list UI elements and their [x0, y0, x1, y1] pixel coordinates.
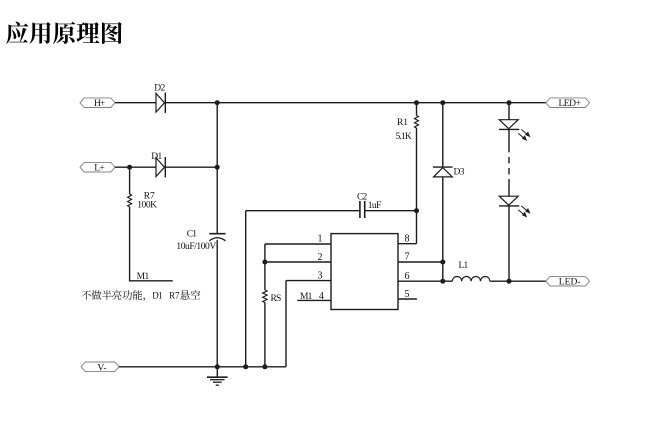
svg-text:10uF/100V: 10uF/100V [176, 242, 216, 252]
svg-text:R7: R7 [169, 291, 180, 301]
wire LED1 to dash [508, 129, 510, 146]
wire LED string top [508, 103, 510, 120]
wire D3 top [442, 103, 444, 167]
wire R7 top [129, 167, 131, 194]
capacitor C1 [209, 233, 225, 235]
svg-text:M1: M1 [300, 292, 313, 302]
wire pin2 [265, 261, 331, 263]
junction V- / RS [262, 364, 267, 369]
wire C2 net horizontal [246, 210, 360, 212]
IC U1 box [331, 234, 398, 310]
svg-text:3: 3 [318, 271, 323, 282]
junction D3 / pin7 [440, 260, 445, 265]
svg-text:D1: D1 [151, 152, 162, 162]
wire pin5 stub [398, 298, 417, 300]
wire C1 net vertical bottom [216, 240, 218, 367]
wire C2 to pin8 net [365, 210, 416, 212]
svg-text:5.1K: 5.1K [396, 132, 412, 142]
wire D2 cathode to LED+ rail [165, 102, 546, 104]
junction V- / C2 net [243, 364, 248, 369]
junction D3 / pin6 [440, 279, 445, 284]
svg-text:H+: H+ [94, 99, 105, 109]
resistor RS [263, 290, 267, 303]
LED LED1 [499, 120, 518, 129]
svg-text:D3: D3 [454, 168, 465, 178]
svg-text:R1: R1 [397, 118, 408, 128]
svg-text:5: 5 [405, 289, 410, 300]
svg-text:M1: M1 [137, 272, 150, 282]
wire pin3 vertical [285, 281, 287, 367]
wire RS bottom [264, 303, 266, 367]
junction H+ rail / D3 [440, 100, 445, 105]
resistor R7 [128, 194, 132, 207]
svg-text:LED-: LED- [559, 278, 581, 288]
junction pin8 net [414, 208, 419, 213]
wire C1 net vertical top [216, 103, 218, 233]
svg-text:1: 1 [318, 234, 323, 245]
svg-text:2: 2 [318, 252, 323, 263]
svg-text:100K: 100K [137, 201, 157, 211]
junction LED string / LED- rail [507, 279, 512, 284]
junction pin1/pin2/RS [262, 260, 267, 265]
svg-text:D1: D1 [152, 291, 162, 301]
junction H+ rail / R1 [414, 100, 419, 105]
wire M1 stub [129, 280, 173, 282]
wire RS top [264, 262, 266, 290]
svg-text:V-: V- [97, 363, 106, 373]
wire pin4 M1 [297, 299, 331, 301]
inductor L1 [452, 277, 490, 282]
LED2 emission arrows [518, 206, 529, 217]
annotation 不做半亮功能，D1 R7悬空 [81, 290, 200, 301]
wire R1 top [416, 103, 418, 116]
svg-text:8: 8 [405, 234, 410, 245]
svg-text:6: 6 [405, 271, 410, 282]
wire pin8 [398, 243, 417, 245]
resistor R1 [415, 116, 419, 129]
svg-text:C1: C1 [187, 229, 197, 239]
wire V- rail [119, 366, 286, 368]
junction C1 net / L+ net [215, 165, 220, 170]
wire C2 net vertical [245, 211, 247, 367]
svg-text:4: 4 [319, 291, 324, 302]
diode D2 [156, 93, 165, 112]
wire LED2 to LED- rail [508, 206, 510, 281]
terminal LED+ [546, 98, 590, 108]
wire pin3 horizontal [286, 280, 331, 282]
junction L+ / R7 tap [127, 165, 132, 170]
terminal L+ [80, 162, 115, 172]
svg-text:L1: L1 [459, 261, 469, 271]
LED LED2 [499, 196, 518, 205]
diode D1 [156, 158, 165, 177]
svg-text:C2: C2 [357, 192, 367, 202]
wire R1 bottom to pin8 corner [416, 128, 418, 244]
terminal LED- [546, 276, 590, 286]
junction H+ rail / LED string [507, 100, 512, 105]
svg-text:D2: D2 [154, 84, 165, 94]
LED1 emission arrows [518, 130, 529, 141]
wire H+ to D2 anode [115, 102, 156, 104]
wire D3 bottom [442, 177, 444, 281]
ground [216, 367, 218, 377]
wire pin1 horizontal [265, 243, 331, 245]
wire R7 bottom [129, 207, 131, 281]
diode D3 [433, 166, 453, 168]
wire L1 to LED- [490, 280, 546, 282]
wire D1 cathode to node [165, 166, 217, 168]
svg-text:LED+: LED+ [558, 99, 581, 109]
junction V- / GND [215, 364, 220, 369]
svg-text:L+: L+ [94, 164, 105, 174]
wire pin1 vertical [264, 244, 266, 262]
wire pin7 [398, 261, 443, 263]
terminal H+ [80, 98, 115, 108]
wire pin6 to L1 [398, 280, 452, 282]
wire dash to LED2 [508, 185, 510, 196]
svg-text:7: 7 [405, 251, 410, 262]
svg-text:1uF: 1uF [368, 201, 382, 211]
svg-text:RS: RS [271, 294, 282, 304]
terminal V- [81, 362, 119, 372]
dashed wire LED string [508, 146, 510, 185]
wire L+ to D1 anode [115, 166, 156, 168]
junction H+ rail / C1 net [215, 100, 220, 105]
capacitor C2 [359, 201, 361, 218]
title 应用原理图 [6, 22, 122, 44]
